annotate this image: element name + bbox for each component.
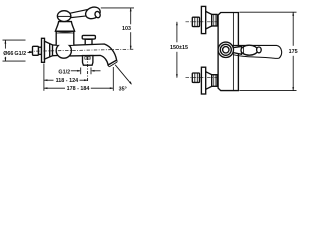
svg-text:103: 103 xyxy=(122,26,131,32)
svg-text:178 - 184: 178 - 184 xyxy=(67,86,90,92)
svg-text:35°: 35° xyxy=(119,86,127,92)
svg-text:118 - 124: 118 - 124 xyxy=(56,78,78,84)
svg-text:150±15: 150±15 xyxy=(170,45,188,51)
svg-text:G1/2: G1/2 xyxy=(14,51,26,57)
svg-text:G1/2: G1/2 xyxy=(58,70,70,76)
svg-text:Ø66: Ø66 xyxy=(3,51,13,57)
svg-text:175: 175 xyxy=(289,49,298,55)
